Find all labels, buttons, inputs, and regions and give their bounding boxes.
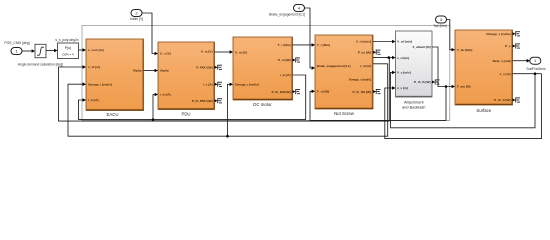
terminator (P_s) [513,44,520,49]
svg-text:and Backlash: and Backlash [402,104,425,109]
svg-text:Beta_s [rad]: Beta_s [rad] [493,59,511,63]
svg-text:i_m [A]: i_m [A] [160,93,171,97]
svg-text:P_th_EM [W]: P_th_EM [W] [272,90,291,94]
wire Beta_s to outport [513,60,528,62]
terminator (Omega_s) [513,31,520,36]
svg-text:Omega_r [rad/s]: Omega_r [rad/s] [88,82,112,86]
svg-text:i_s [A]: i_s [A] [203,83,213,87]
svg-text:P_ns [W]: P_ns [W] [358,50,371,54]
wire polynomial to EACU x_com [79,49,84,51]
svg-text:F_aer [N]: F_aer [N] [457,85,470,89]
terminator (P_th_S) [513,98,520,103]
svg-text:V_rd [m/s]: V_rd [m/s] [397,40,412,44]
svg-text:T_r [Nm]: T_r [Nm] [278,43,291,47]
svg-text:Omega_r [rad/s]: Omega_r [rad/s] [349,78,371,82]
svg-text:i_m [A]: i_m [A] [280,73,291,77]
wire Omega_r branch to DC motor [228,84,231,136]
svg-text:i_m [A]: i_m [A] [88,98,99,102]
terminator (P_th_NS) [373,89,380,94]
svg-text:Omega_s [rad/s]: Omega_s [rad/s] [486,32,510,36]
svg-text:x_rd [m]: x_rd [m] [360,64,371,68]
wire EACU Alpha to PDU [144,70,156,72]
svg-text:POS_CMD [deg]: POS_CMD [deg] [4,41,29,45]
wire DC motor T_r to Nut Screw [293,44,313,46]
terminator (P_PDU) [215,65,222,70]
svg-text:Angle demand saturation [deg]: Angle demand saturation [deg] [18,63,63,67]
wire saturation to polynomial [46,50,55,52]
wire x_rd feedback to EACU x_sf [59,58,390,122]
svg-text:F_rd [N]: F_rd [N] [317,90,329,94]
svg-text:T_r [Nm]: T_r [Nm] [317,43,330,47]
subsystem Attachment and Backlash [396,31,433,97]
svg-text:U_s [V]: U_s [V] [160,52,171,56]
svg-text:T_air [Nm]: T_air [Nm] [457,48,472,52]
inport 1 POS_CMD [11,48,22,55]
svg-text:x_rd [m]: x_rd [m] [397,56,409,60]
svg-text:P_th_PDU [W]: P_th_PDU [W] [192,99,213,103]
wire i_m branch to PDU [153,95,155,120]
subsystem Nut Screw [315,35,373,109]
polynomial block P(u) [58,43,79,59]
svg-text:P(u): P(u) [65,46,71,50]
svg-text:P_s: P_s [505,44,511,48]
svg-text:Brake_engagement [0,1]: Brake_engagement [0,1] [269,12,305,16]
svg-text:V_rd [m/s]: V_rd [m/s] [356,40,371,44]
subsystem PDU [158,42,215,110]
svg-text:V_s [m/s]: V_s [m/s] [397,71,411,75]
svg-text:Tair [Nm]: Tair [Nm] [433,24,446,28]
terminator (P_th_EM) [293,89,300,94]
wire Brake to Nut Screw [305,8,313,68]
svg-text:P_th_S [W]: P_th_S [W] [494,98,510,102]
subsystem Surface [455,30,513,105]
wire Ualim to PDU U_s [142,13,155,54]
wire F_attach to Surface [432,47,452,87]
svg-text:DC motor: DC motor [253,102,272,107]
inport 2 Ualim [131,10,142,17]
inport 4 Brake_engagement [294,5,305,12]
terminator (i_s) [215,82,222,87]
svg-text:Alpha: Alpha [133,69,142,73]
wire Surface x_s output [513,73,542,75]
saturation block [35,44,46,57]
svg-text:Ualim [V]: Ualim [V] [130,17,143,21]
wire Omega_r feedback Nut Screw to EACU [68,64,388,136]
terminator (P_ns) [373,50,380,55]
wire F_attach feedback to Nut Screw F_rd [310,87,446,121]
inport 3 Tair [436,16,447,23]
svg-text:P_th_B [W]: P_th_B [W] [414,80,431,84]
svg-text:Alpha: Alpha [160,69,169,73]
svg-text:x_com [m]: x_com [m] [88,48,103,52]
terminator (P_m) [293,58,300,63]
svg-text:U_m [V]: U_m [V] [235,50,247,54]
outport 1 SurfPosSens [530,57,541,64]
svg-text:s_s_poly-deg2n: s_s_poly-deg2n [55,38,78,42]
svg-text:Nut Screw: Nut Screw [334,111,355,116]
wire Tair to Surface T_air [446,20,452,50]
wire x_s branch to Attachment x_s [385,74,542,139]
wire inport1 to saturation [22,50,32,52]
svg-text:Omega_r [rad/s]: Omega_r [rad/s] [235,83,259,87]
svg-text:x_s [m]: x_s [m] [500,72,511,76]
svg-text:x_sf [m]: x_sf [m] [88,65,100,69]
svg-text:P_m [W]: P_m [W] [278,58,290,62]
terminator (P_th_PDU) [215,98,222,103]
wire i_m feedback DC motor to EACU [79,75,306,119]
wire x_s branch to Attachment V_s [391,72,536,127]
svg-text:PDU: PDU [181,112,190,117]
svg-text:O(P) = 4: O(P) = 4 [62,52,74,56]
svg-text:U_m [V]: U_m [V] [201,50,213,54]
area box [82,26,450,121]
svg-text:P_PDU [W]: P_PDU [W] [196,66,212,70]
svg-text:F_attach [N]: F_attach [N] [413,45,431,49]
wire PDU U_m to DC motor [215,51,231,53]
wire Nut Screw x_rd to Attachment with junction [373,57,393,59]
svg-text:Brake_engagement [0,1]: Brake_engagement [0,1] [317,64,350,68]
subsystem DC motor [233,37,293,100]
svg-text:EACU: EACU [107,112,119,117]
svg-text:x_s [m]: x_s [m] [397,86,408,90]
subsystem EACU [86,39,144,111]
svg-text:P_th_NS [W]: P_th_NS [W] [352,90,371,94]
wire Nut Screw V_rd to Attachment [373,41,393,43]
svg-text:Surface: Surface [476,108,491,113]
terminator (P_th_B) [432,80,439,85]
svg-text:SurfPosSens: SurfPosSens [526,67,546,71]
